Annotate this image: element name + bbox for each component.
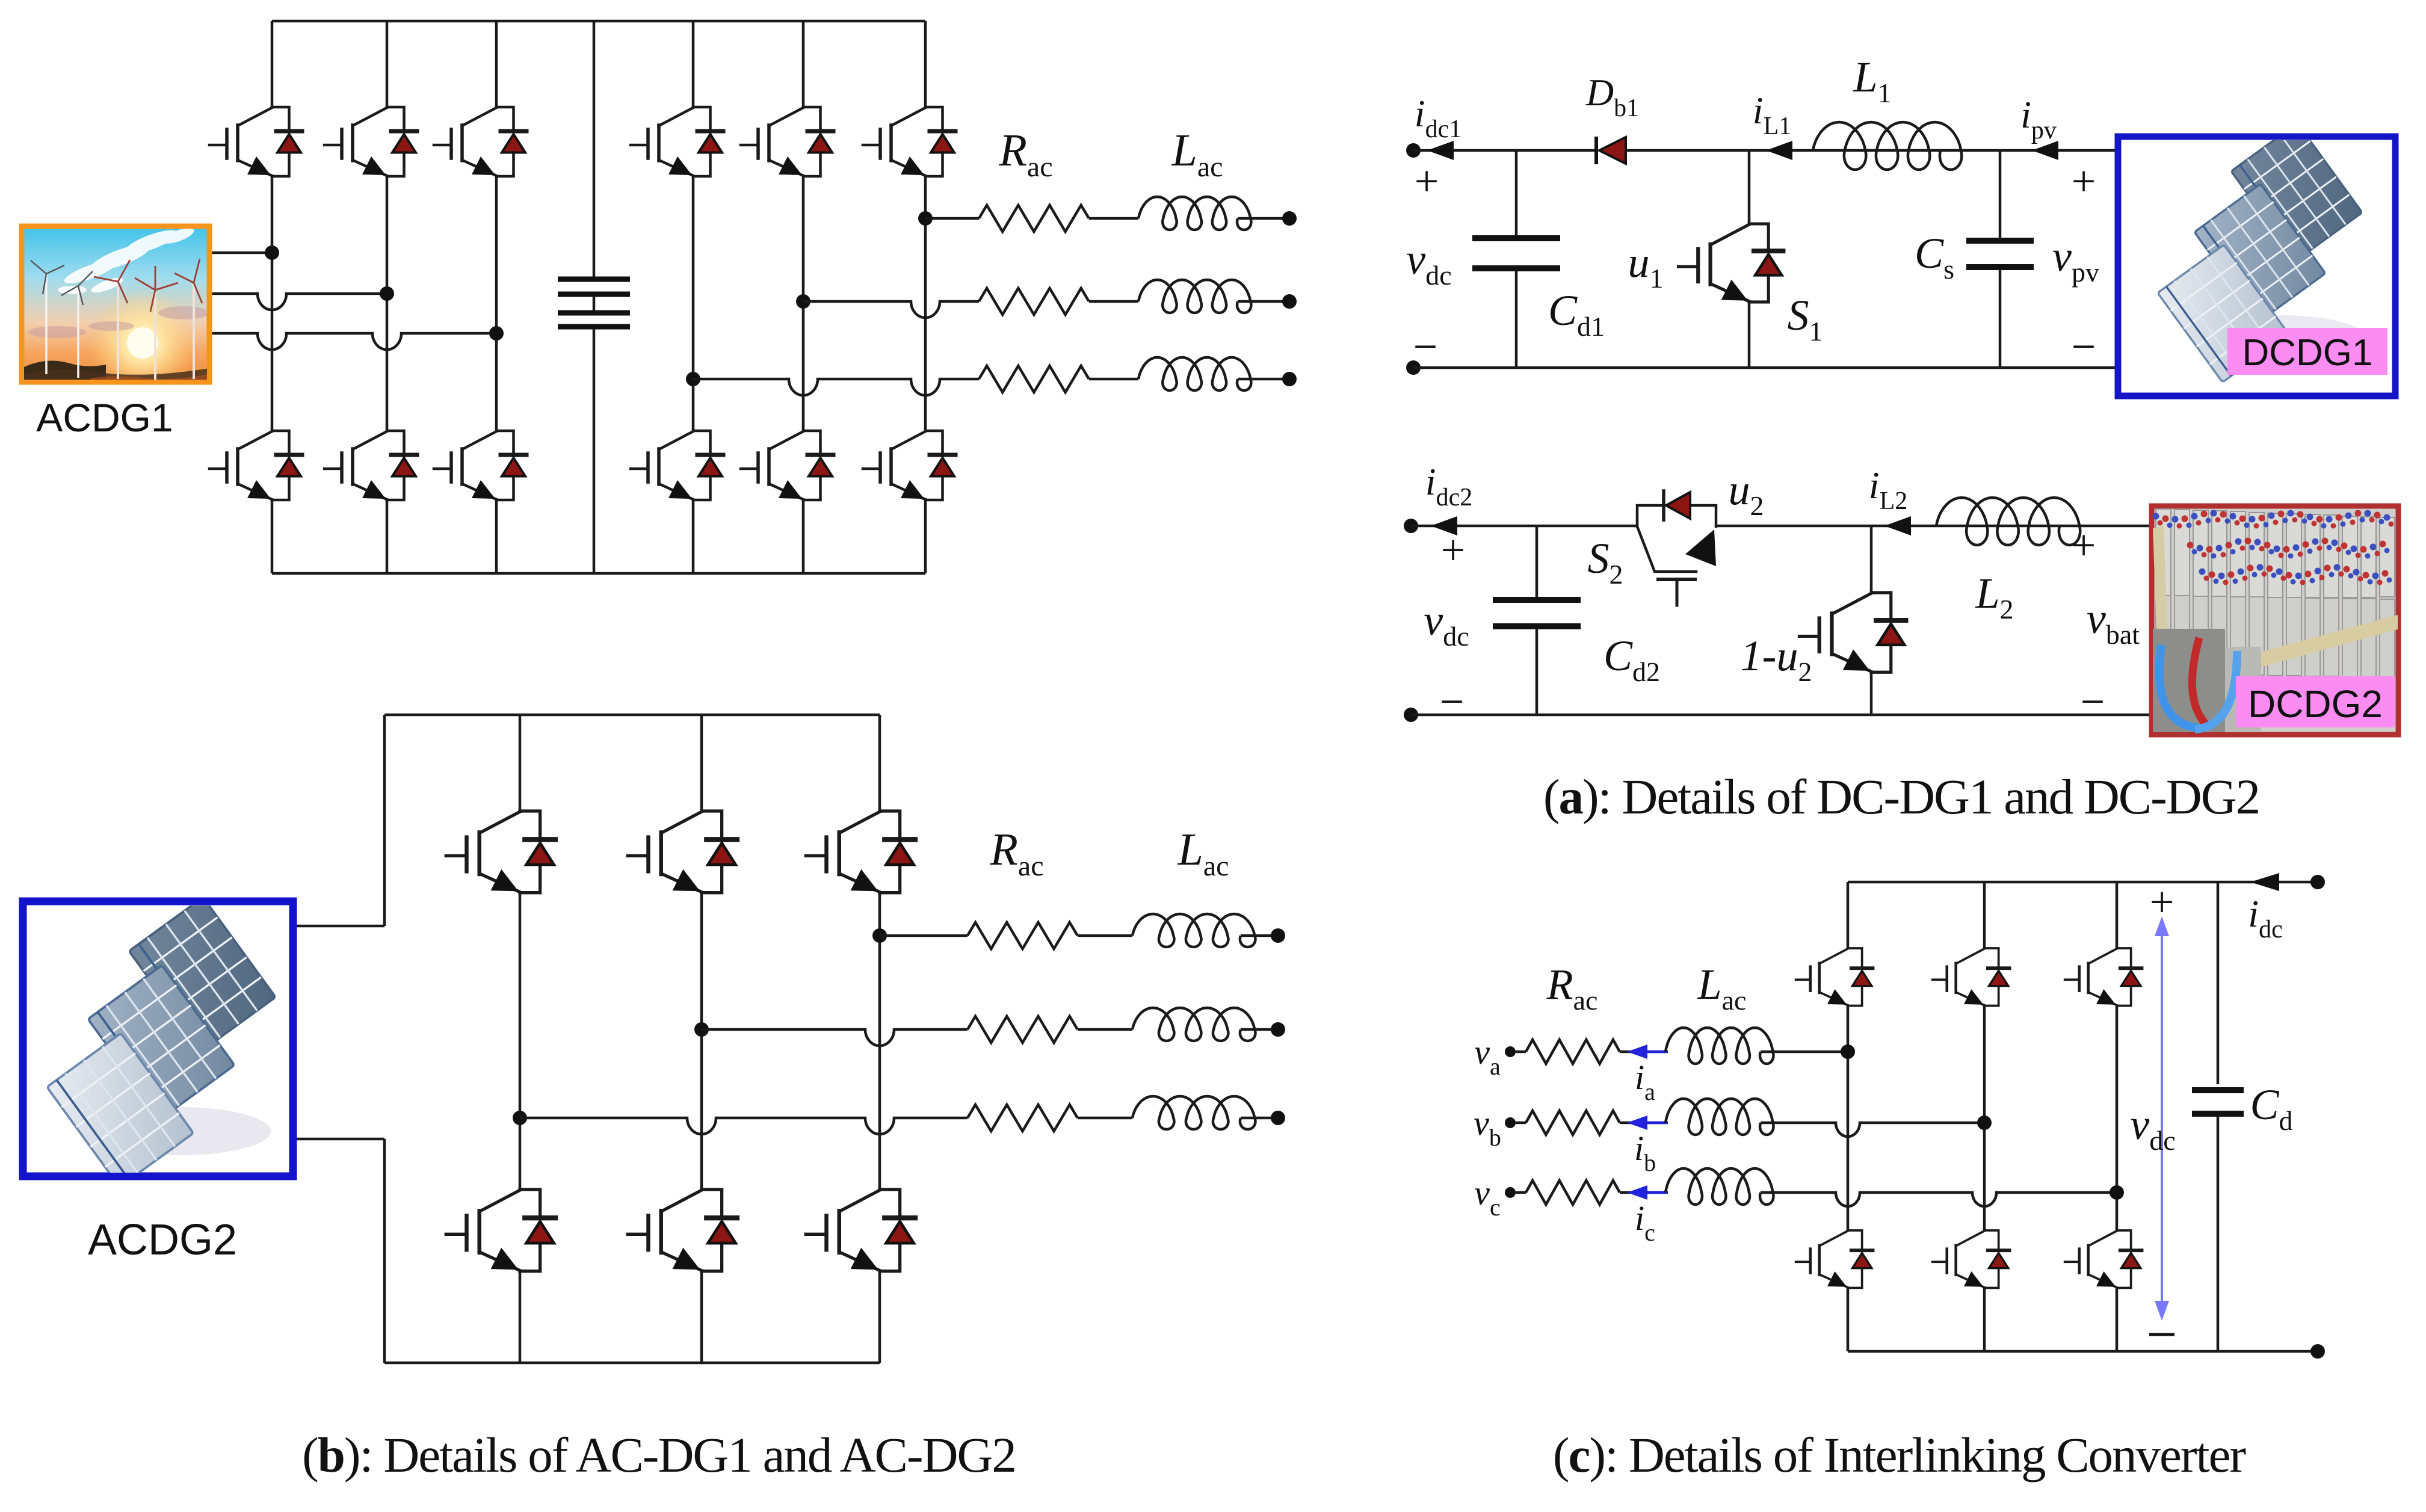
- wire: DCDG1 top rail: [1413, 149, 1595, 152]
- inductor L_ac phase b (IC): [1665, 1099, 1774, 1135]
- transistor: ACDG1 upper IGBT leg 1: [209, 107, 302, 176]
- node: DCDG1 - terminal: [1406, 360, 1421, 375]
- wire: phase b to leg: [1761, 1123, 1984, 1137]
- capacitor C_d (interlinking): [2217, 882, 2220, 1084]
- wire: ACDG2 DC bottom bus: [384, 1362, 880, 1365]
- current arrow i_c (blue): [1627, 1185, 1647, 1200]
- inductor L_ac phase 3 (ACDG1): [1138, 357, 1251, 390]
- measurement arrow v_dc (blue): [2161, 924, 2163, 1313]
- node: DCDG2 + terminal: [1404, 519, 1418, 533]
- node: ACDG1 output phase 2 at leg 5: [796, 294, 810, 309]
- current arrow i_b (blue): [1627, 1115, 1647, 1130]
- svg-text:−: −: [2081, 677, 2105, 726]
- transistor S2 (horizontal) with antiparallel diode: [1637, 491, 1716, 605]
- transistor: ACDG2 upper IGBT leg 2: [628, 811, 737, 893]
- wire: ACDG1 leg 6 verticals: [924, 21, 927, 107]
- node: terminal v_b: [1505, 1117, 1516, 1128]
- wire: ACDG1 DC top bus: [272, 20, 925, 23]
- svg-text:+: +: [1441, 526, 1466, 574]
- wire: ACDG2 output phase 1: [880, 934, 968, 937]
- wire + resistor R_ac phase c (IC): [1516, 1191, 1526, 1194]
- inductor L_ac phase a (IC): [1665, 1028, 1774, 1064]
- wire: IC leg 2 verticals: [1983, 882, 1986, 948]
- transistor: IC lower IGBT leg 1: [1796, 1230, 1873, 1288]
- node: phase c on leg: [2110, 1185, 2124, 1200]
- current arrow i_L1: [1766, 141, 1792, 160]
- transistor: ACDG1 upper IGBT leg 2: [324, 107, 417, 176]
- svg-text:ACDG2: ACDG2: [88, 1216, 237, 1264]
- current arrow i_L2: [1884, 516, 1911, 535]
- svg-text:−: −: [2072, 322, 2096, 371]
- current arrow i_dc1: [1427, 141, 1454, 160]
- capacitor: ACDG1 DC-link lower: [593, 297, 596, 310]
- wire: ACDG2 DC top bus: [384, 714, 880, 717]
- wire: IC leg 3 verticals: [2116, 882, 2119, 948]
- transistor: IC upper IGBT leg 3: [2065, 948, 2142, 1005]
- wire: ACDG1 leg 3 verticals: [495, 21, 498, 107]
- transistor: ACDG1 lower IGBT leg 1: [209, 431, 302, 500]
- wire: ACDG2 leg 1 verticals: [519, 715, 522, 811]
- wire: ACDG2 feed from photo (bottom): [293, 1138, 384, 1141]
- wire: IC DC bottom bus: [1848, 1350, 2311, 1353]
- wire: DCDG2 bottom rail: [1411, 714, 2150, 717]
- transistor: ACDG1 lower IGBT leg 3: [434, 431, 526, 500]
- capacitor: ACDG1 DC-link upper: [593, 21, 596, 277]
- wire: phase c to leg: [1761, 1193, 2117, 1206]
- node: terminal v_c: [1505, 1187, 1516, 1198]
- wire: ACDG1 leg 2 verticals: [386, 21, 389, 107]
- transistor: ACDG2 lower IGBT leg 3: [806, 1190, 915, 1271]
- wire: ACDG1 output phase 1: [925, 217, 979, 220]
- inductor L_ac phase 3 (ACDG2): [1132, 1096, 1256, 1129]
- svg-text:+: +: [2150, 878, 2174, 926]
- node: phase a on leg: [1841, 1045, 1855, 1059]
- wire: ACDG1 output phase 2 (hop over leg 6): [803, 301, 979, 318]
- transistor: ACDG1 upper IGBT leg 3: [434, 107, 526, 176]
- wire: ACDG2 leg 2 verticals: [700, 715, 703, 811]
- transistor: ACDG2 lower IGBT leg 1: [446, 1190, 555, 1271]
- transistor: ACDG1 lower IGBT leg 5: [741, 431, 833, 500]
- wire: ACDG1 leg 5 verticals: [802, 21, 805, 107]
- transistor: IC upper IGBT leg 1: [1796, 948, 1873, 1005]
- node: DCDG2 - terminal: [1404, 708, 1418, 722]
- svg-text:DCDG1: DCDG1: [2242, 332, 2372, 374]
- current arrow i_a (blue): [1627, 1045, 1647, 1059]
- svg-text:(c): Details of Interlinking C: (c): Details of Interlinking Converter: [1553, 1427, 2246, 1483]
- svg-text:−: −: [1440, 677, 1465, 726]
- node: ACDG1 output phase 1 at leg 6: [918, 211, 933, 226]
- wire: ACDG1 phase A input: [212, 251, 272, 255]
- transistor: IC lower IGBT leg 3: [2065, 1230, 2142, 1288]
- transistor: ACDG1 upper IGBT leg 4: [631, 107, 723, 176]
- svg-text:+: +: [2072, 157, 2096, 205]
- current arrow i_dc: [2250, 873, 2279, 891]
- wire: DCDG2 top rail: [1411, 525, 1637, 528]
- resistor R_ac phase 2 (ACDG2): [968, 1016, 1078, 1043]
- svg-text:DCDG2: DCDG2: [2248, 682, 2383, 726]
- wire: ACDG2 leg 3 verticals: [878, 715, 881, 811]
- resistor R_ac phase 3 (ACDG2): [968, 1105, 1078, 1131]
- inductor L_ac phase c (IC): [1665, 1168, 1774, 1205]
- svg-text:+: +: [1415, 157, 1439, 205]
- wire: ACDG1 phase C input (hops over legs 1,2): [212, 333, 496, 350]
- wire + resistor R_ac phase a (IC): [1516, 1051, 1526, 1054]
- capacitor C_s: [1999, 150, 2002, 238]
- resistor R_ac phase 1 (ACDG1): [979, 205, 1089, 232]
- transistor: ACDG1 lower IGBT leg 2: [324, 431, 417, 500]
- capacitor C_d1: [1515, 150, 1518, 235]
- inductor L_ac phase 2 (ACDG2): [1132, 1008, 1256, 1041]
- svg-text:(b): Details of AC-DG1 and AC-: (b): Details of AC-DG1 and AC-DG2: [302, 1427, 1016, 1483]
- wire: ACDG1 output phase 3 (hops over legs 5,6): [693, 379, 979, 395]
- wire: ACDG2 feed from photo (top): [293, 925, 384, 928]
- wire: IC DC top bus: [1848, 881, 2311, 884]
- inductor L1: [1813, 122, 1961, 170]
- wire: IC leg 1 verticals: [1847, 882, 1850, 948]
- transistor: ACDG2 upper IGBT leg 1: [446, 811, 555, 893]
- photo: DCDG2 battery bank image: [2152, 506, 2398, 735]
- inductor L_ac phase 2 (ACDG1): [1138, 280, 1251, 313]
- transistor: IC lower IGBT leg 2: [1933, 1230, 2010, 1288]
- transistor: ACDG1 lower IGBT leg 6: [863, 431, 955, 500]
- node: ACDG2 output phase 1 at leg 3: [872, 928, 887, 943]
- wire: ACDG2 output phase 2 (hop over leg 3): [702, 1029, 968, 1046]
- diode D_b1: [1594, 137, 1598, 164]
- transistor: ACDG2 upper IGBT leg 3: [806, 811, 915, 893]
- wire: DCDG1 bottom rail: [1413, 366, 2117, 369]
- node: phase b on leg: [1977, 1115, 1992, 1130]
- svg-text:(a): Details of DC-DG1 and DC-: (a): Details of DC-DG1 and DC-DG2: [1543, 769, 2259, 824]
- wire: ACDG1 leg 1 verticals: [271, 21, 274, 107]
- node: IC top-right terminal: [2310, 875, 2325, 889]
- node: ACDG1 output phase 3 at leg 4: [686, 372, 700, 386]
- photo: ACDG2 solar PV image: [11, 897, 312, 1186]
- photo: DCDG1 solar image with blue border: [2118, 123, 2395, 396]
- transistor: ACDG1 upper IGBT leg 6: [863, 107, 955, 176]
- resistor R_ac phase 2 (ACDG1): [979, 288, 1089, 315]
- node: ACDG2 output phase 2 at leg 2: [694, 1022, 709, 1037]
- transistor 1-u2: [1870, 526, 1873, 593]
- transistor: ACDG1 upper IGBT leg 5: [741, 107, 833, 176]
- node: terminal v_a: [1505, 1046, 1516, 1057]
- node: ACDG2 output phase 3 at leg 1: [513, 1111, 527, 1125]
- wire: phase a to leg: [1761, 1051, 1848, 1054]
- node: IC bottom-right terminal: [2310, 1344, 2325, 1359]
- transistor: ACDG2 lower IGBT leg 2: [628, 1190, 737, 1271]
- svg-text:ACDG1: ACDG1: [36, 395, 173, 440]
- current arrow i_dc2: [1431, 516, 1457, 535]
- svg-text:+: +: [2072, 521, 2096, 569]
- wire: ACDG1 DC bottom bus: [272, 572, 925, 575]
- transistor: IC upper IGBT leg 2: [1933, 948, 2010, 1005]
- wire: ACDG1 leg 4 verticals: [692, 21, 695, 107]
- node: DCDG1 output + terminal: [1406, 143, 1421, 158]
- inductor L_ac phase 1 (ACDG1): [1138, 197, 1251, 230]
- inductor L2: [1936, 498, 2080, 545]
- resistor R_ac phase 1 (ACDG2): [968, 922, 1078, 949]
- transistor: ACDG1 lower IGBT leg 4: [631, 431, 723, 500]
- capacitor C_d2: [1536, 526, 1539, 597]
- current arrow i_pv: [2032, 141, 2058, 160]
- wire: ACDG2 output phase 3 (hops over legs 2,3): [520, 1118, 968, 1134]
- transistor S1 with gate u1: [1748, 150, 1751, 224]
- inductor L_ac phase 1 (ACDG2): [1132, 914, 1256, 947]
- wire + resistor R_ac phase b (IC): [1516, 1122, 1526, 1125]
- resistor R_ac phase 3 (ACDG1): [979, 366, 1089, 392]
- wire: ACDG1 phase B input (hop over leg1): [212, 294, 387, 310]
- photo: ACDG1 wind farm image: [22, 225, 209, 397]
